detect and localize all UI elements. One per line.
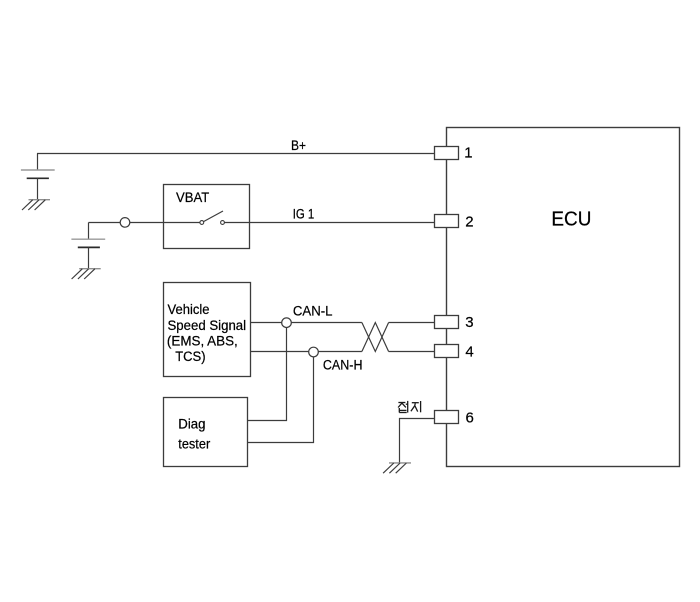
- ground G3 (chassis): [383, 463, 411, 473]
- wire twist to pin 4: [389, 351, 435, 353]
- battery B2 lead: [88, 223, 90, 240]
- wire CAN-H drop to Diag tester: [248, 357, 314, 443]
- battery B1 negative plate: [27, 177, 49, 179]
- switch box VBAT: [164, 185, 250, 249]
- net label 접지 (drawn strokes): [398, 401, 421, 413]
- svg-text:VBAT: VBAT: [176, 189, 210, 205]
- wire pin 6 to chassis ground: [400, 419, 436, 463]
- svg-text:(EMS, ABS,: (EMS, ABS,: [167, 334, 238, 349]
- twisted pair crossover: [362, 323, 389, 352]
- wire CAN-L from box to twist: [251, 322, 362, 324]
- battery B2 negative plate: [78, 246, 100, 248]
- battery B2 positive plate: [71, 238, 105, 240]
- switch S1 right contact: [221, 221, 225, 225]
- svg-text:tester: tester: [178, 436, 210, 451]
- wire B+ from battery to pin 1: [37, 153, 435, 155]
- svg-text:Diag: Diag: [178, 416, 205, 431]
- battery B2 lower lead: [88, 247, 90, 268]
- svg-text:B+: B+: [291, 138, 306, 153]
- wire twist to pin 3: [389, 322, 435, 324]
- wire CAN-H from box to twist: [251, 351, 362, 353]
- pin 6: [435, 411, 459, 424]
- svg-text:3: 3: [465, 314, 473, 331]
- junction node CAN-H: [309, 347, 319, 357]
- wire connector to VBAT box: [130, 222, 164, 224]
- svg-text:1: 1: [464, 145, 472, 162]
- pin 1: [435, 147, 459, 160]
- switch S1 blade: [204, 211, 224, 222]
- svg-text:2: 2: [465, 214, 473, 231]
- pin 2: [435, 215, 459, 228]
- svg-text:ECU: ECU: [551, 208, 591, 230]
- battery B1 lower lead: [37, 178, 39, 199]
- svg-text:TCS): TCS): [175, 349, 205, 364]
- ground G1: [22, 200, 50, 210]
- switch S1 left contact: [200, 221, 204, 225]
- svg-text:Speed Signal: Speed Signal: [168, 318, 247, 333]
- wire IG 1 to pin 2: [224, 222, 435, 224]
- battery B1 lead: [37, 154, 39, 170]
- wire IG from battery B2 to connector: [89, 222, 121, 224]
- svg-text:Vehicle: Vehicle: [168, 302, 210, 317]
- ground G2: [72, 269, 101, 279]
- wire CAN-L drop to Diag tester: [248, 328, 287, 421]
- svg-text:4: 4: [465, 343, 473, 360]
- ECU box U1: [447, 128, 680, 467]
- battery B1 positive plate: [21, 169, 55, 171]
- svg-text:6: 6: [466, 410, 474, 427]
- Vehicle Speed Signal box: [164, 283, 251, 377]
- svg-text:CAN-H: CAN-H: [323, 358, 363, 373]
- Diag tester label: [178, 416, 210, 451]
- svg-text:IG 1: IG 1: [293, 206, 315, 221]
- pin 4: [435, 345, 459, 358]
- pin 3: [435, 316, 459, 329]
- Diag tester box: [164, 398, 248, 467]
- connector circle on IG line: [120, 218, 130, 228]
- junction node CAN-L: [282, 318, 292, 328]
- svg-text:CAN-L: CAN-L: [293, 304, 333, 319]
- switch S1 wire into left contact: [164, 222, 201, 224]
- Vehicle Speed Signal label: [167, 302, 246, 364]
